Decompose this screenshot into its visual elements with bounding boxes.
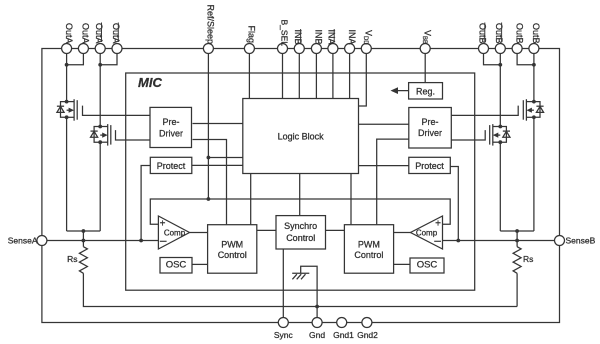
wire OutA pin4 tie to pin3 <box>100 54 117 65</box>
svg-text:VDD: VDD <box>362 30 374 45</box>
pin OutB-bar 2 <box>495 44 505 54</box>
wire Rs right bottom lead <box>516 273 518 306</box>
wire Comp-R output to PWM-R <box>394 232 411 234</box>
node OutB4 tie <box>532 63 536 67</box>
node Q3 source <box>532 115 536 119</box>
wire comp plus bus <box>150 199 450 224</box>
wire PWM-L to Synchro <box>257 229 276 231</box>
svg-text:INA: INA <box>327 30 337 45</box>
wire Protect-R tap to SenseB <box>450 167 458 241</box>
wire Rs right top lead <box>516 241 518 247</box>
transistor Q3 (upper-right MOSFET) <box>523 99 543 121</box>
pin INB-bar <box>294 44 304 54</box>
node SenseB Rs <box>515 239 519 243</box>
node source join left <box>82 229 86 233</box>
svg-text:B_SEL: B_SEL <box>280 20 290 47</box>
block Synchro Control <box>276 216 326 249</box>
wire OutB pin4 down to Q3 drain <box>533 54 535 102</box>
block PreDriver U3 (right) <box>409 108 452 149</box>
wire INB down to Logic <box>315 54 317 99</box>
svg-text:SenseA: SenseA <box>8 235 38 245</box>
op-amp Comp (left) <box>158 216 189 249</box>
node source join right <box>515 229 519 233</box>
svg-text:OSC: OSC <box>417 260 438 271</box>
svg-text:OutA: OutA <box>111 23 121 44</box>
svg-text:INB: INB <box>314 30 324 45</box>
block Reg <box>409 83 443 99</box>
pin VBB <box>420 44 430 54</box>
wire Flag down to Logic <box>248 54 250 99</box>
pin OutB-bar 1 <box>479 44 489 54</box>
pin B_SEL <box>278 44 288 54</box>
wire source join right <box>500 230 534 232</box>
wire Protect-L to Logic Block <box>191 164 243 166</box>
wire Q2 gate lead <box>116 130 151 140</box>
pin OutA-bar 4 <box>112 44 122 54</box>
svg-text:Gnd1: Gnd1 <box>333 330 354 340</box>
node OutA1 tie <box>65 63 69 67</box>
arrowhead at Reg lead <box>391 87 399 94</box>
wire OutB pin1 tie to pin2 <box>484 54 501 65</box>
wire B_SEL down to Logic <box>282 54 284 99</box>
pin OutB 3 <box>512 44 522 54</box>
pin SenseB <box>555 236 565 246</box>
svg-text:OutB: OutB <box>514 23 524 44</box>
node Q2 source <box>98 140 102 144</box>
svg-text:Ref/Sleep: Ref/Sleep <box>206 5 216 45</box>
svg-text:Gnd: Gnd <box>309 330 325 340</box>
block PWM Control (left) <box>208 225 257 274</box>
wire Q3 gate lead <box>451 106 518 116</box>
transistor Q1 (upper-left MOSFET) <box>57 99 77 121</box>
svg-text:OutB: OutB <box>477 23 487 44</box>
pin INB <box>311 44 321 54</box>
block Protect (left) <box>150 157 192 173</box>
node Ref/Sleep on comp bus <box>207 197 211 201</box>
pin Ref/Sleep <box>203 44 213 54</box>
node SenseA Rs <box>82 239 86 243</box>
svg-text:Flag: Flag <box>247 26 257 44</box>
node OutB2 tie <box>498 63 502 67</box>
node SenseA protect tap <box>139 239 143 243</box>
wire source drop to SenseA rail <box>82 231 84 241</box>
pin Gnd <box>312 318 322 328</box>
svg-text:Comp: Comp <box>164 229 186 238</box>
wire Synchro down to Sync pin <box>282 249 284 318</box>
svg-text:Gnd2: Gnd2 <box>357 330 378 340</box>
svg-text:Rs: Rs <box>523 254 533 264</box>
svg-text:OutB: OutB <box>494 23 504 44</box>
pin Sync <box>278 318 288 328</box>
wire OSC-R to PWM-R <box>394 263 410 265</box>
node Q1 drain <box>65 100 69 104</box>
wire PreDriver-L down to PWM-L <box>193 140 227 225</box>
svg-text:OutB: OutB <box>531 23 541 44</box>
svg-text:Protect: Protect <box>415 161 444 171</box>
wire OutB pin3 tie to pin4 <box>517 54 534 65</box>
svg-text:+: + <box>435 219 441 230</box>
wire Gnd pin up to ground symbol <box>301 266 317 317</box>
resistor Rs left <box>79 247 87 274</box>
wire Logic bottom to Synchro <box>299 174 301 216</box>
wire Q1 source down <box>66 117 68 231</box>
wire Synchro to PWM-R <box>326 229 345 231</box>
node Gnd on Rs rail <box>315 305 319 309</box>
wire OutB pin2 down to Q4 drain <box>499 54 501 127</box>
wire Reg arrow lead <box>392 90 409 92</box>
wire Q3 source down <box>533 117 535 231</box>
wire Ref/Sleep down <box>207 54 209 199</box>
wire Q4 source down <box>499 142 501 231</box>
svg-text:Control: Control <box>218 250 247 260</box>
wire source join left <box>67 230 101 232</box>
svg-text:Pre-: Pre- <box>421 117 438 127</box>
wire OutA pin2 tie to pin1 <box>67 54 84 65</box>
svg-text:OutA: OutA <box>64 23 74 44</box>
block OSC (right) <box>410 258 444 273</box>
svg-text:Reg.: Reg. <box>416 87 435 97</box>
wire Logic to PreDriver-R <box>359 123 409 125</box>
wire OutA pin3 down to Q2 drain <box>99 54 101 127</box>
svg-text:Comp: Comp <box>416 229 438 238</box>
svg-text:OSC: OSC <box>166 260 187 271</box>
wire Comp-L output to PWM-L <box>190 232 208 234</box>
transistor Q4 (lower-right MOSFET) <box>490 124 510 146</box>
block PWM Control (right) <box>344 225 393 274</box>
wire INAbar down to Logic <box>332 54 334 99</box>
wire VBB down to Reg <box>424 54 426 83</box>
node SenseB protect tap <box>456 239 460 243</box>
op-amp Comp (right) <box>411 216 443 249</box>
wire Rs left bottom lead to ground rail <box>83 273 517 306</box>
pin OutA 2 <box>78 44 88 54</box>
svg-text:Control: Control <box>354 250 383 260</box>
pin Gnd2 <box>362 318 372 328</box>
node Q4 source <box>498 140 502 144</box>
svg-text:OutA: OutA <box>81 23 91 44</box>
svg-text:Logic Block: Logic Block <box>278 131 325 141</box>
pin Gnd1 <box>337 318 347 328</box>
svg-text:Driver: Driver <box>418 128 442 138</box>
package outline <box>42 49 560 323</box>
block OSC (left) <box>160 258 192 274</box>
node OutA3 tie <box>98 63 102 67</box>
wire Logic bottom to PWM-R <box>350 174 352 225</box>
pin INA <box>345 44 355 54</box>
pin OutA 1 <box>62 44 72 54</box>
wire Q4 gate lead <box>451 130 485 140</box>
wire source drop to SenseB rail <box>516 231 518 241</box>
wire PreDriver-R down to PWM-R <box>377 139 409 224</box>
svg-text:Protect: Protect <box>157 161 186 171</box>
wire Logic bottom to PWM-L <box>250 174 252 225</box>
resistor Rs right <box>513 247 521 274</box>
wire Rs left top lead <box>82 241 84 247</box>
svg-text:Control: Control <box>286 233 315 243</box>
node Q1 source <box>65 115 69 119</box>
wire SenseA rail <box>42 240 158 242</box>
node Ref/Sleep to Logic <box>207 156 211 160</box>
wire Protect-L tap to SenseA <box>141 166 151 241</box>
svg-text:PWM: PWM <box>358 239 380 249</box>
block Logic Block <box>243 99 359 174</box>
minus sign comp right <box>434 240 441 242</box>
svg-text:INB: INB <box>293 30 303 45</box>
svg-text:MIC: MIC <box>138 75 162 90</box>
wire INA down to Logic <box>349 54 351 99</box>
node Q3 drain <box>532 100 536 104</box>
svg-text:OutA: OutA <box>94 23 104 44</box>
pin INA-bar <box>328 44 338 54</box>
wire Logic to Protect-R <box>359 165 410 167</box>
node Q4 drain <box>498 125 502 129</box>
wire Ref/Sleep to Logic Block <box>208 157 242 159</box>
wire INBbar down to Logic <box>298 54 300 99</box>
node Q2 drain <box>98 125 102 129</box>
svg-text:INA: INA <box>347 30 357 45</box>
wire SenseB rail <box>443 240 560 242</box>
pin VDD <box>361 44 371 54</box>
svg-text:Synchro: Synchro <box>284 221 317 231</box>
MIC die box <box>126 73 475 290</box>
block Protect (right) <box>409 157 451 173</box>
svg-text:VBB: VBB <box>421 30 433 44</box>
wire OutA pin1 down to Q1 drain <box>66 54 68 102</box>
block PreDriver U2 (left) <box>150 107 192 147</box>
wire Q2 source down <box>99 142 101 231</box>
wire Q1 gate lead <box>83 106 151 116</box>
pin Flag <box>244 44 254 54</box>
svg-text:Sync: Sync <box>274 330 294 340</box>
ground symbol <box>292 273 309 279</box>
pin SenseA <box>37 236 47 246</box>
wire OSC-L to PWM-L <box>192 263 208 265</box>
wire PreDriver-L to Logic Block <box>193 123 243 125</box>
svg-text:Pre-: Pre- <box>162 117 179 127</box>
pin OutB 4 <box>529 44 539 54</box>
svg-text:+: + <box>160 219 166 230</box>
pin OutA-bar 3 <box>95 44 105 54</box>
svg-text:Rs: Rs <box>67 254 77 264</box>
svg-text:Driver: Driver <box>159 128 183 138</box>
wire VDD down into Logic right edge <box>359 54 367 106</box>
minus sign comp left <box>160 240 167 242</box>
svg-text:PWM: PWM <box>221 239 243 249</box>
transistor Q2 (lower-left MOSFET) <box>91 124 111 146</box>
svg-text:SenseB: SenseB <box>566 235 596 245</box>
